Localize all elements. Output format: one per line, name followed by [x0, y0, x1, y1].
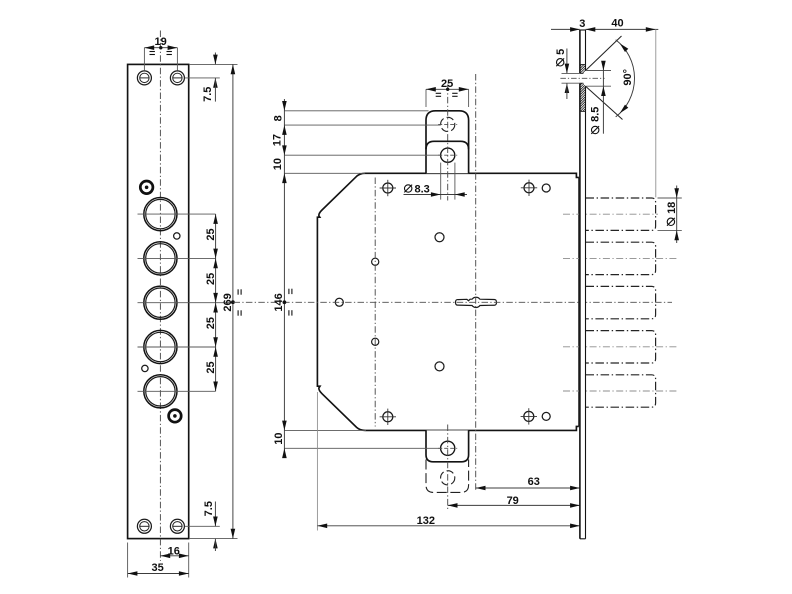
svg-text:7.5: 7.5 [203, 501, 215, 516]
key cross-section [456, 297, 497, 307]
svg-text:63: 63 [528, 476, 540, 488]
top tab hidden hole [441, 117, 455, 131]
dimension 7.5 bottom [213, 502, 218, 552]
dimension line 25 tab [426, 88, 469, 90]
center line of bolt hole 4 [138, 346, 216, 348]
small hole near top-right [542, 184, 550, 192]
faceplate vertical centerline [159, 31, 161, 562]
extension line tab hole center [284, 154, 440, 156]
small hole near bottom-right [542, 412, 550, 420]
svg-text:40: 40 [611, 17, 623, 29]
svg-text:18: 18 [666, 202, 678, 214]
svg-text:8: 8 [272, 115, 284, 121]
top tab hole center mark [438, 154, 457, 156]
extension line bottom tab hole center [284, 447, 440, 449]
arrows 269 [231, 64, 236, 538]
svg-text:25: 25 [205, 273, 217, 285]
label dia 5 [555, 49, 567, 66]
bottom tab hole center mark [438, 447, 457, 449]
angle arc 90 [616, 40, 635, 117]
arrows 132 [317, 524, 580, 529]
arrows dia 8.3 [431, 192, 465, 197]
arrows 3 [570, 27, 595, 32]
extension line left edge bottom [127, 543, 129, 578]
extension lines tab 25 [426, 89, 469, 107]
svg-text:16: 16 [168, 546, 180, 558]
svg-text:5: 5 [555, 49, 567, 55]
top mounting tab [426, 111, 469, 174]
svg-text:19: 19 [154, 36, 166, 48]
bolt hole 3 front view [144, 286, 177, 319]
case hole lower middle [435, 362, 444, 371]
countersink line upper [585, 36, 621, 71]
section hatching [530, 65, 639, 112]
screw hole top-right [170, 71, 184, 85]
arrows 16 [160, 554, 188, 559]
symmetry marks 146 [289, 289, 292, 316]
small hole lower left [142, 365, 148, 371]
hole axis centerline [560, 77, 604, 79]
pin hole with dot upper [140, 181, 153, 194]
extension line hidden tab top [284, 110, 428, 112]
deadbolt 4 hidden outline [586, 331, 656, 363]
case hole upper middle [435, 233, 444, 242]
case vertical centerline [374, 178, 376, 427]
bolt hole 5 front view [144, 375, 177, 408]
hidden hole center mark [438, 123, 457, 125]
svg-text:3: 3 [579, 18, 585, 30]
screw hole bottom-right [170, 519, 184, 533]
svg-text:10: 10 [272, 158, 284, 170]
extension of case bottom edge [284, 429, 366, 431]
svg-text:269: 269 [222, 293, 234, 311]
center line of bolt hole 5 [138, 390, 216, 392]
center line of bolt hole 3 [138, 302, 233, 304]
extension line top screws [185, 77, 220, 79]
countersunk hole opening [580, 71, 586, 87]
bottom tab centerline [447, 425, 449, 511]
faceplate edge outline [580, 30, 586, 539]
midpoint dot 19 [159, 46, 162, 49]
screw hole top-left [137, 71, 151, 85]
svg-text:25: 25 [441, 78, 453, 90]
bottom tab hidden hole [441, 471, 455, 485]
case hole on axis upper [372, 258, 379, 265]
dimension dia 5 [565, 49, 570, 100]
center line of bolt hole 1 [138, 213, 216, 215]
arrows 79 [448, 503, 580, 508]
svg-text:8.3: 8.3 [415, 184, 430, 196]
midpoint dot 146 [283, 300, 287, 304]
dimension line 63 [476, 487, 580, 489]
dimension line 35 [128, 573, 189, 575]
arc arrows [620, 43, 629, 113]
dimension line 79 [448, 504, 580, 506]
svg-text:17: 17 [272, 134, 284, 146]
leader line dia 8.3 [404, 194, 468, 196]
case hole on axis lower [372, 338, 379, 345]
svg-text:8.5: 8.5 [590, 107, 602, 122]
case hole left [335, 298, 343, 306]
dimension line 269 [232, 64, 234, 538]
extension line plate top [190, 63, 238, 65]
rivet hole top-right [521, 180, 537, 196]
svg-text:25: 25 [205, 228, 217, 240]
symmetry marks 25 tab [436, 93, 458, 96]
screw hole bottom-left [137, 519, 151, 533]
rivet hole bottom-right [521, 408, 537, 424]
dimension line 19 [144, 47, 177, 49]
extension line right edge bottom [188, 543, 190, 578]
midpoint dot 25 tab [446, 88, 449, 91]
pin hole with dot lower [169, 410, 182, 423]
cylinder axis centerline [475, 74, 477, 491]
svg-text:146: 146 [273, 293, 285, 311]
svg-text:25: 25 [205, 317, 217, 329]
extension lines dia 5 [562, 73, 581, 83]
deadbolt 2 centerline [563, 257, 678, 259]
dimension line 16 [160, 555, 188, 557]
svg-text:10: 10 [273, 432, 285, 444]
extension lines dia 8.3 [441, 163, 455, 200]
center line of bolt hole 2 [138, 257, 216, 259]
svg-text:132: 132 [417, 515, 435, 527]
bottom tab hole [441, 441, 455, 455]
bolt hole 4 front view [144, 330, 177, 363]
deadbolt 5 hidden outline [586, 375, 656, 407]
arrows left stack [282, 101, 287, 458]
symmetry marks 19 [150, 52, 172, 55]
dimension line 132 [317, 525, 580, 527]
rivet hole bottom-left [380, 409, 396, 425]
symmetry marks 269 [238, 289, 241, 315]
countersink line lower [585, 86, 622, 120]
label dia 8.5 [590, 107, 602, 134]
deadbolt 4 centerline [563, 346, 678, 348]
extension line hidden hole center [284, 124, 440, 126]
faceplate front view outline [128, 64, 189, 538]
arrows 63 [476, 486, 580, 491]
extension lines dia 18 [658, 198, 682, 230]
hatch boundary lines [580, 65, 586, 112]
extension line plate bottom [190, 538, 238, 540]
bolt hole 2 front view [144, 242, 177, 275]
dimension line 25 stack [215, 214, 217, 391]
deadbolt 5 centerline [563, 390, 678, 392]
dimension dia 8.5 [601, 61, 606, 134]
extension line 40 [655, 29, 657, 197]
svg-text:35: 35 [151, 562, 163, 574]
label dia 18 [666, 202, 678, 226]
svg-text:79: 79 [507, 495, 519, 507]
extension lines dia 8.5 [586, 71, 611, 87]
deadbolt 3 hidden outline [586, 286, 656, 318]
label dia 8.3 [404, 184, 429, 196]
midpoint dot 269 [231, 300, 235, 304]
faceplate edge view [580, 30, 586, 539]
case right edge at faceplate [578, 177, 580, 426]
dimension line left stack [283, 99, 285, 456]
arrow 40 right [646, 27, 656, 32]
top tab centerline [447, 85, 449, 201]
dimension 3-40 line [551, 28, 658, 30]
deadbolt 1 centerline [563, 213, 658, 215]
extension line bottom screws [185, 525, 220, 527]
rivet hole top-left [380, 180, 396, 196]
svg-text:7.5: 7.5 [202, 87, 214, 102]
lock case outline [317, 173, 578, 430]
deadbolt 2 hidden outline [586, 242, 656, 274]
bolt hole 1 front view [144, 198, 177, 231]
extension lines 19 [144, 48, 177, 71]
svg-text:25: 25 [205, 361, 217, 373]
top tab step edge [426, 141, 469, 149]
arrows 25 stack [213, 214, 218, 391]
small hole upper right [174, 233, 180, 239]
top tab hole [441, 148, 455, 162]
main horizontal centerline [234, 301, 673, 303]
extension of case top edge [284, 172, 365, 174]
arrows 25 tab [426, 87, 469, 92]
arrows 19 [144, 45, 177, 50]
bottom mounting tab [426, 430, 469, 461]
deadbolt 1 hidden outline [586, 198, 656, 230]
dimension dia 18 [674, 186, 679, 244]
extension line case left edge down [316, 392, 318, 531]
bottom mounting tab hidden part [426, 460, 469, 493]
svg-text:90°: 90° [622, 69, 634, 86]
arrows 35 [128, 571, 189, 576]
dimension 7.5 top [213, 53, 218, 102]
